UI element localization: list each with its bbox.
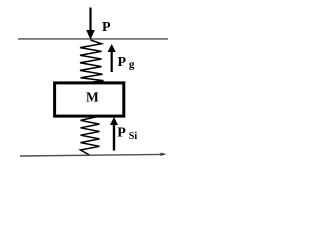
top support line <box>18 38 168 40</box>
svg-text:P: P <box>118 55 127 70</box>
lower spring <box>81 117 100 155</box>
force arrow P (downward) <box>86 8 95 40</box>
svg-text:P: P <box>117 126 126 141</box>
svg-text:P: P <box>102 20 111 35</box>
reaction arrow PSi (upward) <box>110 117 118 151</box>
reaction arrow Pg (upward) <box>108 44 116 72</box>
upper spring <box>80 40 104 83</box>
ground line with small right arrowhead <box>20 153 167 156</box>
svg-text:Si: Si <box>129 131 138 142</box>
svg-text:M: M <box>86 90 99 105</box>
svg-text:g: g <box>129 58 135 70</box>
mass block M <box>55 83 124 116</box>
